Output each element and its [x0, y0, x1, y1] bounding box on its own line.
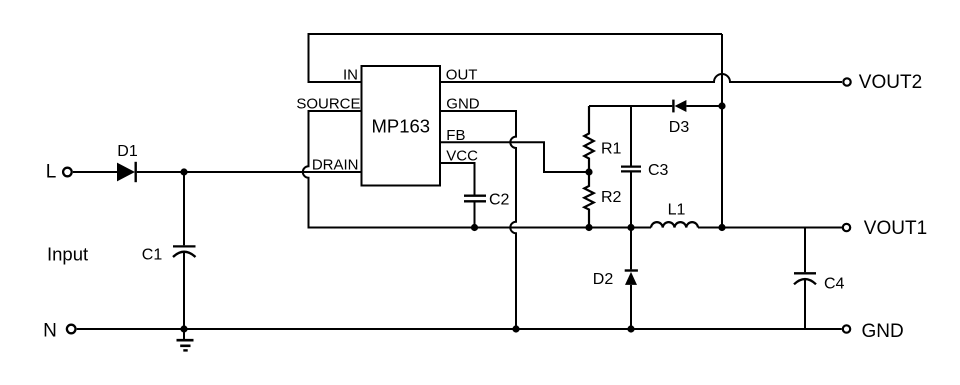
wire D1 to DRAIN pin [137, 171, 362, 173]
svg-text:C1: C1 [142, 247, 163, 264]
terminal VOUT2 [843, 72, 922, 93]
ground [177, 329, 194, 350]
diode D1 [117, 143, 138, 182]
svg-text:D1: D1 [117, 143, 138, 160]
wire L1 to VOUT1 [698, 227, 842, 229]
svg-text:C4: C4 [824, 275, 845, 292]
node D1/C1 junction [180, 168, 187, 175]
svg-text:D3: D3 [669, 119, 690, 136]
inductor L1 [651, 201, 698, 227]
node FB/R1/R2 [585, 168, 592, 175]
svg-text:R1: R1 [601, 141, 622, 158]
capacitor C1 [142, 172, 196, 329]
node C3 bottom on source rail [627, 224, 634, 231]
capacitor C2 [464, 191, 510, 227]
svg-text:D2: D2 [593, 271, 614, 288]
svg-text:VOUT2: VOUT2 [859, 72, 922, 93]
wire VOUT2 vertical drop (top rail to L1 node) [721, 34, 723, 228]
svg-text:GND: GND [446, 95, 480, 112]
svg-text:C2: C2 [489, 191, 510, 208]
svg-text:N: N [43, 321, 57, 342]
node L1 right / VOUT2 drop bottom [718, 224, 725, 231]
svg-text:MP163: MP163 [371, 115, 430, 136]
svg-text:Input: Input [47, 243, 88, 264]
node R2 bottom on source rail [585, 224, 592, 231]
svg-text:GND: GND [862, 321, 904, 342]
svg-text:L: L [46, 161, 57, 182]
svg-text:VCC: VCC [446, 147, 478, 164]
svg-text:DRAIN: DRAIN [312, 156, 359, 173]
wire GND pin down to bottom rail (hops over FB and source rail) [440, 111, 516, 329]
node D3 anode / VOUT2 drop [718, 102, 725, 109]
node C1/ground on N rail [180, 325, 187, 332]
diode D2 [593, 228, 638, 330]
wire L to D1 [73, 171, 117, 173]
wire OUT pin to VOUT2 with hop over vertical [440, 74, 842, 82]
node GND-pin drop on bottom rail [512, 325, 519, 332]
svg-text:FB: FB [446, 127, 465, 144]
svg-text:C3: C3 [648, 162, 669, 179]
diode D3 [669, 100, 722, 136]
wire FB pin to R1/R2 node [440, 142, 589, 172]
terminal L [46, 161, 72, 182]
wire bottom rail N to GND [77, 328, 842, 330]
resistor R1 [584, 106, 621, 172]
capacitor C3 [621, 106, 669, 228]
node D2 anode on bottom rail [627, 325, 634, 332]
svg-text:VOUT1: VOUT1 [864, 218, 927, 239]
wire SOURCE pin down (hop over DRAIN) and rail to L1 [303, 111, 651, 228]
wire IN pin feedback loop (left vertical + top rail) [309, 34, 723, 82]
svg-text:L1: L1 [668, 201, 686, 218]
wire R1 top to D3 cathode [589, 105, 672, 107]
terminal GND [843, 321, 904, 342]
op-amp U1 MP163 body [362, 66, 441, 186]
terminal VOUT1 [843, 218, 927, 239]
svg-text:OUT: OUT [446, 66, 478, 83]
svg-text:R2: R2 [601, 189, 622, 206]
resistor R2 [584, 172, 621, 228]
terminal N [43, 321, 75, 342]
svg-text:SOURCE: SOURCE [296, 95, 360, 112]
capacitor C4 [794, 228, 845, 330]
node C2 bottom on source rail [471, 224, 478, 231]
svg-text:IN: IN [343, 66, 358, 83]
wire VCC pin to C2 [440, 163, 475, 195]
